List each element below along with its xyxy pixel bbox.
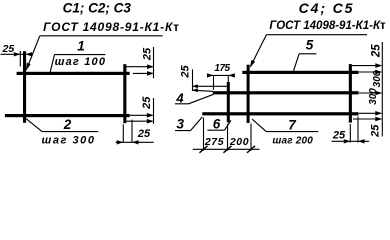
svg-text:шаг 200: шаг 200 [272, 136, 313, 147]
svg-text:С1; С2; С3: С1; С2; С3 [63, 1, 132, 16]
svg-text:5: 5 [306, 38, 314, 53]
svg-text:1: 1 [77, 39, 85, 54]
svg-text:шаг 100: шаг 100 [55, 56, 107, 68]
svg-text:25: 25 [142, 47, 154, 61]
svg-text:ГОСТ 14098-91-К1-Кт: ГОСТ 14098-91-К1-Кт [43, 20, 180, 34]
svg-text:ГОСТ 14098-91-К1-Кт: ГОСТ 14098-91-К1-Кт [269, 20, 386, 32]
svg-text:25: 25 [180, 65, 192, 79]
svg-text:3: 3 [177, 117, 185, 132]
svg-text:6: 6 [213, 116, 221, 131]
svg-text:300: 300 [368, 88, 379, 105]
svg-text:С4; С5: С4; С5 [299, 0, 355, 16]
svg-text:2: 2 [63, 117, 72, 132]
svg-text:25: 25 [141, 96, 153, 110]
svg-text:7: 7 [288, 118, 297, 133]
svg-text:шаг 300: шаг 300 [41, 134, 95, 146]
svg-text:175: 175 [214, 63, 230, 74]
svg-text:300: 300 [372, 70, 383, 87]
svg-text:200: 200 [229, 136, 249, 148]
svg-text:25: 25 [2, 43, 15, 55]
svg-text:25: 25 [137, 128, 151, 140]
svg-text:25: 25 [370, 124, 382, 138]
svg-text:25: 25 [371, 44, 383, 58]
